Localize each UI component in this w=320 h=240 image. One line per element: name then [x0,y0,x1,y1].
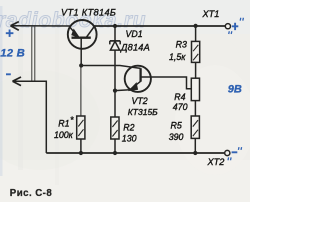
svg-text:XT1: XT1 [202,9,220,19]
node: VD1/VT2 emitter junction [113,89,117,93]
transistor VT1 (KT814B, PNP) [68,20,97,66]
paper background [0,0,250,202]
svg-text:1,5к: 1,5к [169,52,186,62]
blue ditto marks near XT1 [229,18,244,34]
svg-text:9В: 9В [228,84,242,96]
wire: bottom minus rail [46,152,224,154]
svg-text:130: 130 [122,133,137,143]
zener diode VD1 (D814A) [110,26,120,91]
wire: minus input lead with arrow [13,77,47,153]
svg-text:R1: R1 [58,118,69,128]
left page-edge blue band [0,6,3,176]
wire: +12V top rail left segment with input arrow [11,22,71,31]
paper mottling [0,0,255,202]
resistor R1 [77,66,85,154]
trimmer resistor R4 [191,78,199,116]
node: rail junction at VD1 [113,24,117,28]
svg-text:Рис. С-8: Рис. С-8 [10,188,53,199]
svg-text:VD1: VD1 [126,29,143,39]
svg-text:VT2: VT2 [132,96,148,106]
svg-text:VT1 КТ814Б: VT1 КТ814Б [61,7,116,17]
blue minus mark at XT2 [232,151,238,153]
wire: VT1 base to VT2 collector [81,66,140,69]
wire: VT2 base to R4 wiper [151,77,191,89]
svg-text:R3: R3 [176,39,187,49]
blue minus mark (input) [6,73,11,75]
node: R1 bottom junction [79,151,83,155]
blue ditto marks near XT2 [228,147,242,160]
svg-text:R4: R4 [174,92,185,102]
svg-text:R2: R2 [123,123,134,133]
svg-text:XT2: XT2 [207,157,225,167]
node: R2 bottom junction [113,151,117,155]
node: R5 bottom junction [193,151,197,155]
blue plus mark (input polarity) [6,30,14,37]
svg-text:470: 470 [173,102,188,112]
terminal XT2 [225,150,230,155]
blue plus mark at XT1 [232,23,238,30]
svg-text:Д814А: Д814А [120,42,150,52]
terminal XT1 [225,24,230,29]
wire: parallel twin vertical link [32,27,35,81]
svg-text:КТ315Б: КТ315Б [128,107,158,117]
resistor R5 [191,116,199,153]
transistor VT2 (KT315B, NPN) [115,66,151,92]
svg-text:12 В: 12 В [0,47,25,59]
svg-text:*: * [70,115,74,125]
svg-text:390: 390 [169,132,184,142]
wire: top rail right segment (VT1 collector to XT1) [94,25,225,27]
node: VT1 base junction [79,63,83,67]
node: rail junction at R3 [194,24,198,28]
svg-text:100к: 100к [54,130,74,140]
svg-text:R5: R5 [171,121,182,131]
resistor R3 [192,26,200,78]
resistor R2 [111,91,119,153]
